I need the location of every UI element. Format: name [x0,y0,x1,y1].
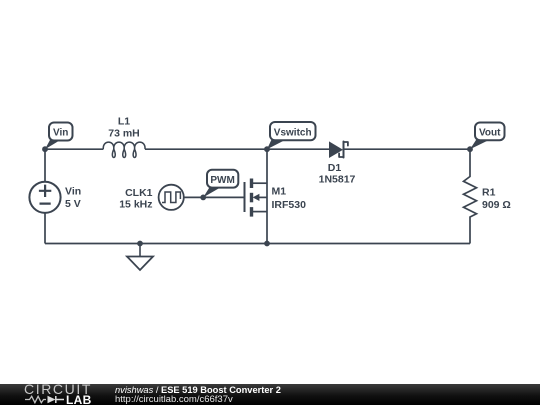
svg-text:15 kHz: 15 kHz [119,198,152,210]
svg-text:CLK1: CLK1 [125,187,153,199]
junction dot at Vswitch node [264,146,270,152]
label CLK1 [125,187,153,199]
label L1 [118,116,130,128]
value label 15 kHz [119,198,152,210]
wire: CLK1 to MOSFET gate (PWM net) [184,196,244,198]
node flag Vin [45,123,73,150]
junction dot at ground [137,241,143,247]
transistor M1 (NMOS) [245,179,268,217]
svg-text:IRF530: IRF530 [272,199,307,211]
value label 909 ohm [482,199,511,211]
wire: source - down to bottom rail [44,213,46,244]
svg-text:R1: R1 [482,187,496,199]
wire: bottom rail [45,243,470,245]
label D1 [328,162,342,174]
svg-text:Vswitch: Vswitch [274,127,312,138]
wire: inductor to Vswitch node [145,148,267,150]
value label 73 mH [108,128,140,140]
footer bar [0,384,540,405]
wire: Vswitch node to diode anode [267,148,329,150]
node flag Vswitch [267,122,316,149]
footer title text [115,386,281,396]
junction dot at M1 source / bottom rail [264,241,270,247]
clock source CLK1 [159,185,184,210]
inductor L1 [103,142,145,157]
svg-text:909 Ω: 909 Ω [482,199,511,211]
label M1 [272,186,287,198]
svg-text:Vout: Vout [479,128,501,139]
wire top-left: Vin node to inductor [45,148,103,150]
value label IRF530 [272,199,307,211]
svg-text:M1: M1 [272,186,287,198]
resistor R1 [464,149,477,243]
label R1 [482,187,496,199]
svg-text:73 mH: 73 mH [108,128,140,140]
junction dot at Vin node [42,146,48,152]
CircuitLab logo [24,384,92,395]
svg-text:PWM: PWM [210,175,234,186]
ground [127,244,153,271]
svg-text:Vin: Vin [53,128,68,139]
svg-text:L1: L1 [118,116,130,128]
svg-text:5 V: 5 V [65,198,81,210]
voltage source Vin 5V [29,182,60,213]
node flag PWM [203,170,238,198]
wire: Vswitch node down through M1 drain/source to bottom rail [266,149,268,243]
junction dot at PWM net [200,195,206,201]
node flag Vout [470,123,505,150]
wire: Vin node down to source + [44,149,46,182]
svg-text:Vin: Vin [65,185,81,197]
wire: diode cathode to Vout node [344,148,470,150]
svg-text:1N5817: 1N5817 [319,173,356,185]
svg-text:D1: D1 [328,162,342,174]
diode D1 1N5817 (schottky) [329,141,348,158]
junction dot at Vout node [467,146,473,152]
value label 1N5817 [319,173,356,185]
label Vin 5V [65,185,81,210]
footer url text [115,395,233,405]
